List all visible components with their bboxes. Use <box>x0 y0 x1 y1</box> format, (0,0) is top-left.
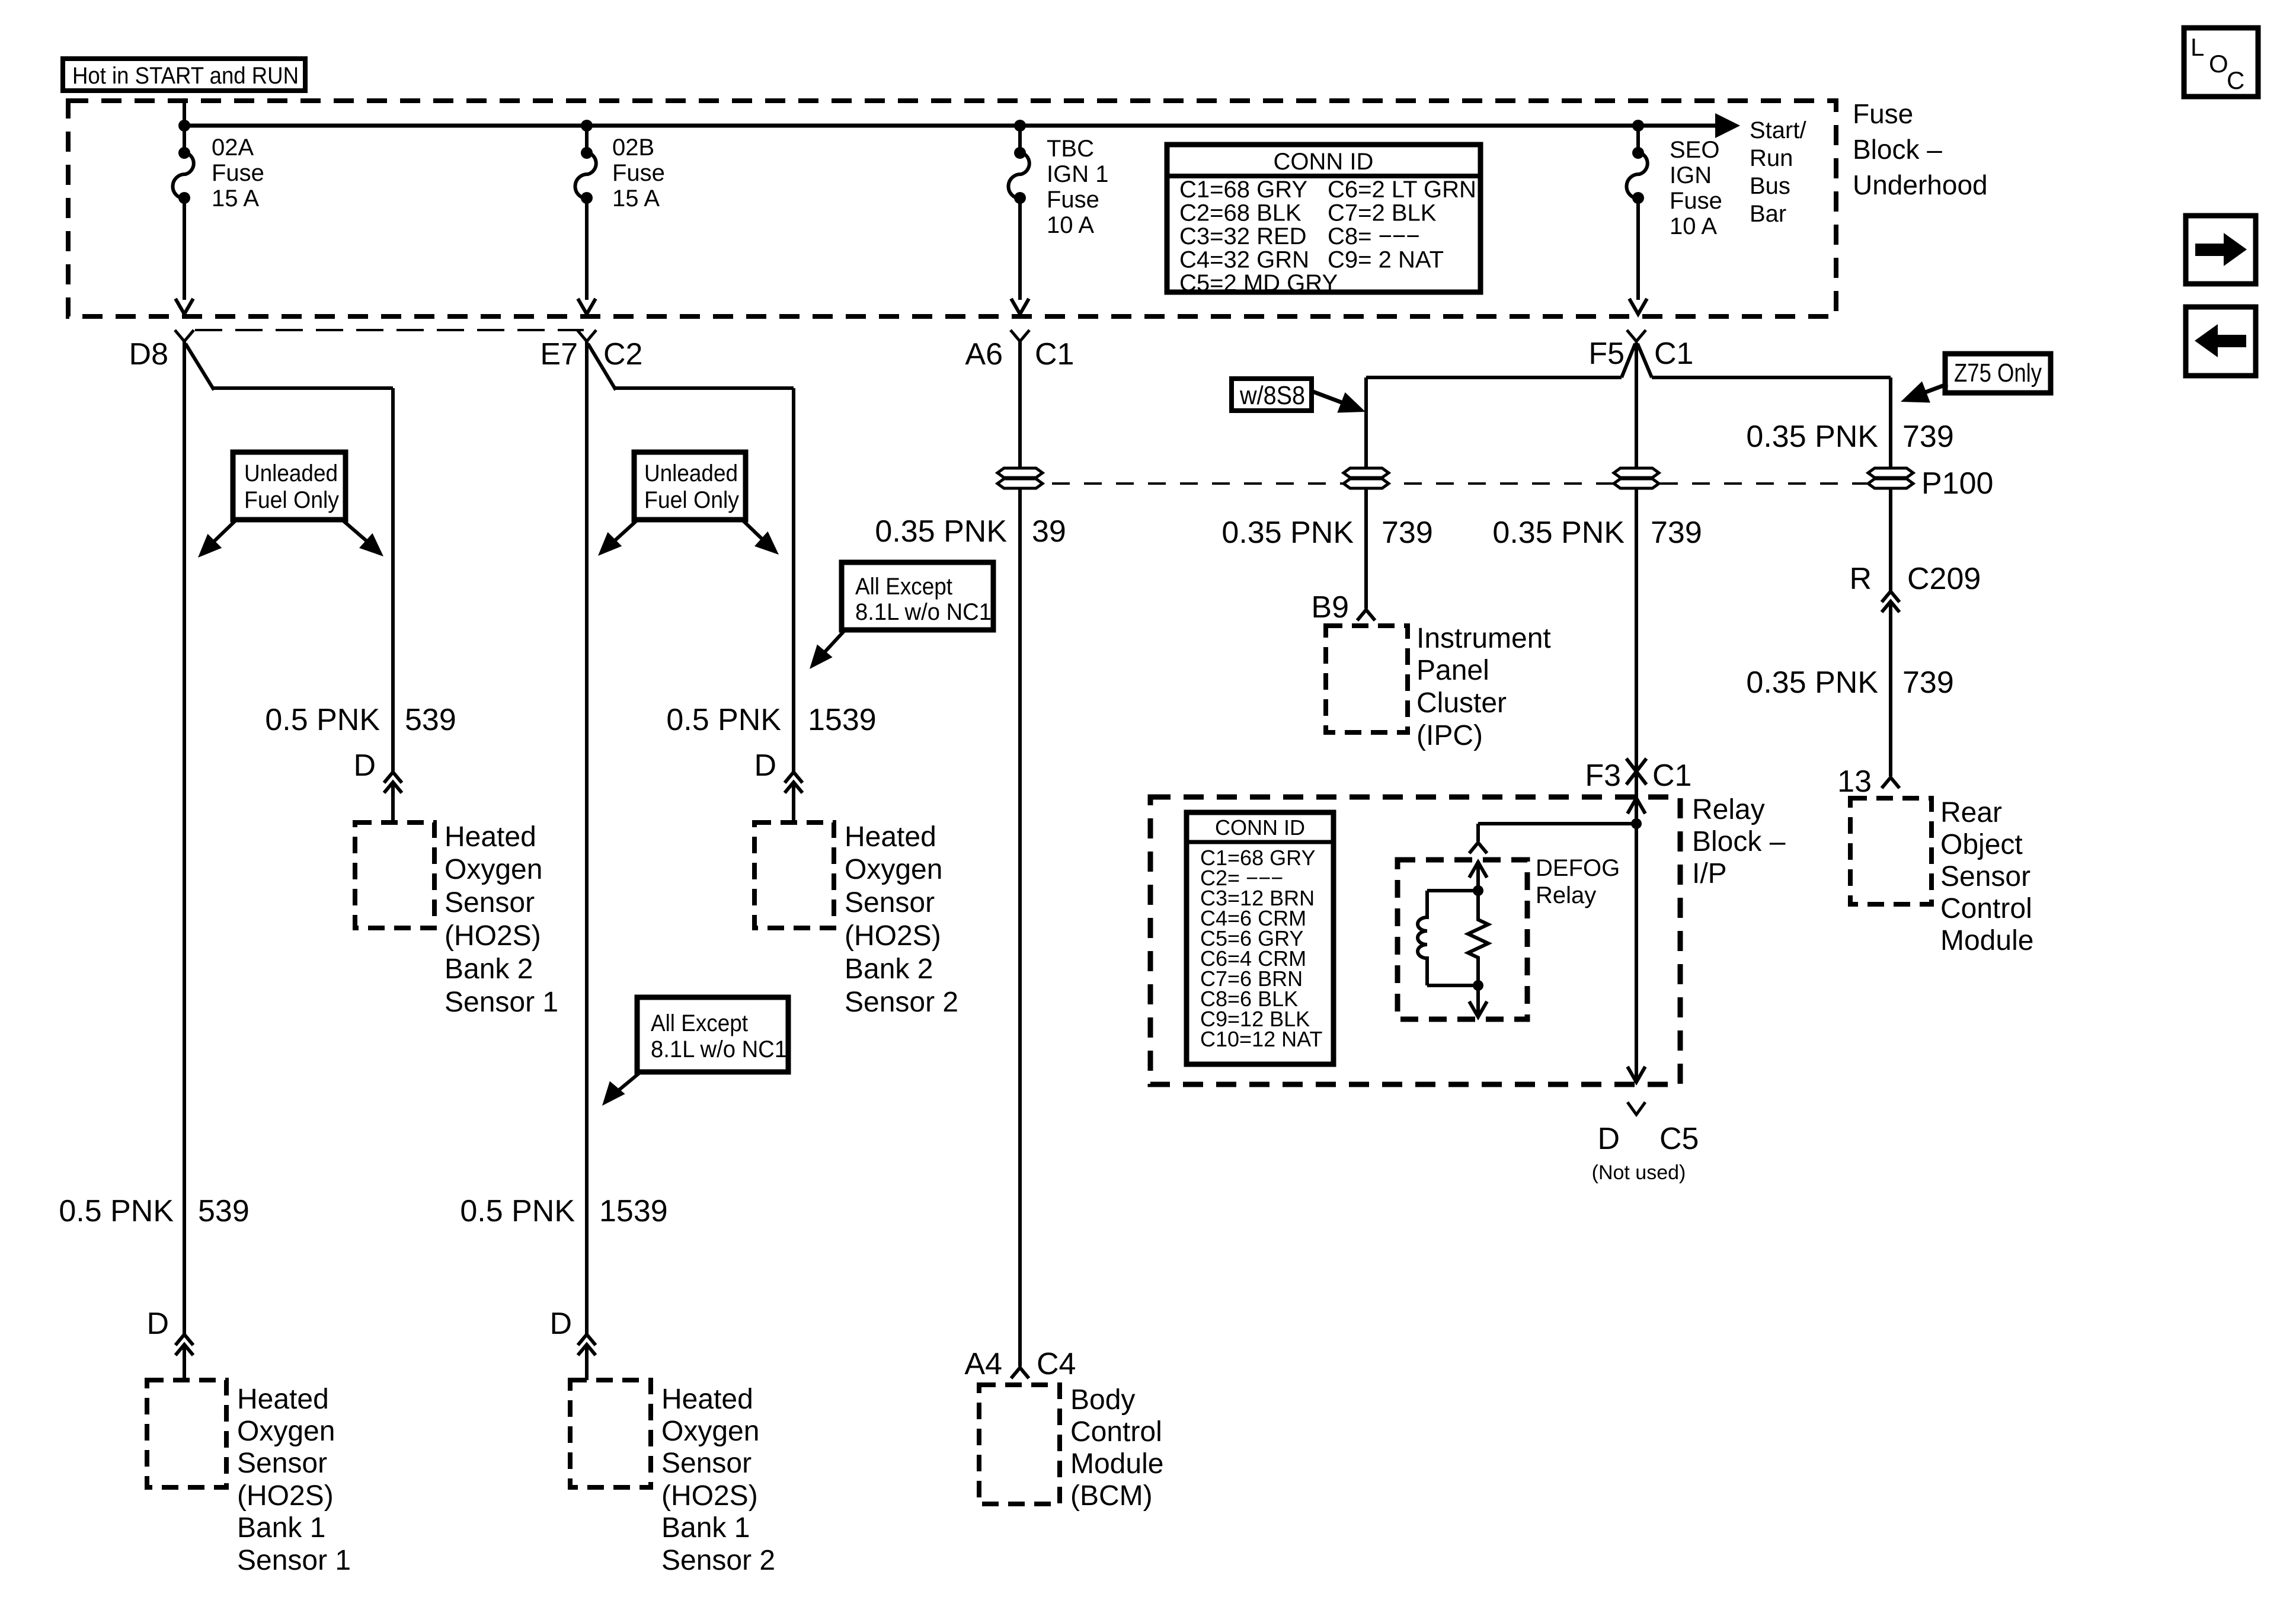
svg-text:D: D <box>353 748 376 783</box>
svg-text:C5: C5 <box>1659 1122 1699 1156</box>
svg-text:02B: 02B <box>612 135 654 161</box>
svg-text:8.1L w/o NC1: 8.1L w/o NC1 <box>651 1036 787 1062</box>
svg-text:Fuse: Fuse <box>1670 188 1722 214</box>
svg-text:Unleaded: Unleaded <box>244 460 338 486</box>
svg-text:C: C <box>2227 66 2244 94</box>
svg-text:Control: Control <box>1070 1416 1162 1448</box>
svg-text:Fuse: Fuse <box>612 160 665 186</box>
svg-text:R: R <box>1849 562 1872 596</box>
svg-text:0.35 PNK: 0.35 PNK <box>1746 665 1878 700</box>
svg-text:Bank 1: Bank 1 <box>237 1512 325 1544</box>
svg-text:Oxygen: Oxygen <box>237 1416 335 1447</box>
svg-text:Hot in START and RUN: Hot in START and RUN <box>72 63 299 89</box>
svg-text:TBC: TBC <box>1047 136 1094 162</box>
svg-text:0.35 PNK: 0.35 PNK <box>1492 516 1625 550</box>
svg-text:Heated: Heated <box>661 1384 753 1415</box>
svg-text:Bank 2: Bank 2 <box>445 953 533 985</box>
svg-text:Sensor: Sensor <box>1940 861 2030 892</box>
svg-text:Instrument: Instrument <box>1416 623 1551 654</box>
svg-text:15 A: 15 A <box>212 185 259 212</box>
svg-text:15 A: 15 A <box>612 185 660 212</box>
svg-text:0.35 PNK: 0.35 PNK <box>1746 420 1878 454</box>
svg-text:C1: C1 <box>1654 337 1693 371</box>
svg-text:Oxygen: Oxygen <box>445 854 542 885</box>
svg-text:Body: Body <box>1070 1384 1135 1416</box>
svg-text:P100: P100 <box>1921 466 1993 501</box>
svg-text:(Not used): (Not used) <box>1592 1161 1686 1184</box>
svg-text:Relay: Relay <box>1692 794 1765 825</box>
svg-text:39: 39 <box>1032 514 1066 549</box>
svg-text:D: D <box>549 1307 572 1341</box>
svg-text:A4: A4 <box>964 1347 1002 1381</box>
svg-text:0.5 PNK: 0.5 PNK <box>59 1194 174 1228</box>
svg-text:B9: B9 <box>1311 590 1349 625</box>
svg-text:F5: F5 <box>1588 337 1625 371</box>
svg-text:Bus: Bus <box>1750 173 1790 199</box>
svg-text:w/8S8: w/8S8 <box>1239 381 1305 410</box>
svg-text:1539: 1539 <box>808 703 877 737</box>
svg-text:Module: Module <box>1940 925 2033 956</box>
svg-text:8.1L w/o NC1: 8.1L w/o NC1 <box>855 599 992 625</box>
svg-text:DEFOG: DEFOG <box>1536 855 1620 881</box>
svg-text:0.5 PNK: 0.5 PNK <box>666 703 781 737</box>
svg-text:739: 739 <box>1651 516 1702 550</box>
svg-text:Module: Module <box>1070 1448 1163 1480</box>
svg-text:C1: C1 <box>1652 758 1691 793</box>
svg-text:Sensor 2: Sensor 2 <box>661 1545 775 1576</box>
svg-text:Sensor: Sensor <box>237 1448 327 1479</box>
svg-text:CONN ID: CONN ID <box>1274 149 1374 175</box>
svg-text:Sensor 1: Sensor 1 <box>445 987 558 1018</box>
svg-text:Z75 Only: Z75 Only <box>1954 359 2042 388</box>
svg-text:C4=32 GRN: C4=32 GRN <box>1179 247 1309 273</box>
svg-text:C2=68 BLK: C2=68 BLK <box>1179 200 1302 226</box>
svg-text:Oxygen: Oxygen <box>845 854 942 885</box>
svg-text:Heated: Heated <box>445 821 536 853</box>
svg-text:C1: C1 <box>1035 337 1074 372</box>
svg-text:Block –: Block – <box>1692 826 1786 857</box>
svg-text:C10=12 NAT: C10=12 NAT <box>1200 1027 1322 1051</box>
svg-text:0.5 PNK: 0.5 PNK <box>265 703 380 737</box>
svg-text:Bank 2: Bank 2 <box>845 953 933 985</box>
svg-text:C4: C4 <box>1037 1347 1076 1381</box>
svg-text:Underhood: Underhood <box>1853 169 1988 200</box>
svg-text:Oxygen: Oxygen <box>661 1416 759 1447</box>
svg-text:F3: F3 <box>1585 758 1621 793</box>
svg-text:(HO2S): (HO2S) <box>845 920 941 952</box>
svg-text:Sensor 2: Sensor 2 <box>845 987 958 1018</box>
svg-text:Unleaded: Unleaded <box>644 460 738 486</box>
svg-text:02A: 02A <box>212 135 254 161</box>
svg-text:Fuse: Fuse <box>212 160 264 186</box>
svg-text:Fuel Only: Fuel Only <box>244 487 339 513</box>
svg-text:Fuse: Fuse <box>1853 98 1913 129</box>
svg-text:10 A: 10 A <box>1670 213 1717 239</box>
svg-text:Control: Control <box>1940 893 2032 924</box>
svg-text:C2: C2 <box>603 337 642 372</box>
svg-text:1539: 1539 <box>599 1194 668 1228</box>
svg-text:739: 739 <box>1902 665 1954 700</box>
svg-text:Rear: Rear <box>1940 797 2002 828</box>
svg-text:C7=2 BLK: C7=2 BLK <box>1328 200 1437 226</box>
svg-text:739: 739 <box>1902 420 1954 454</box>
svg-text:Sensor 1: Sensor 1 <box>237 1545 351 1576</box>
svg-text:739: 739 <box>1382 516 1433 550</box>
svg-text:Fuel Only: Fuel Only <box>644 487 739 513</box>
svg-text:All Except: All Except <box>651 1010 748 1036</box>
svg-text:CONN ID: CONN ID <box>1215 815 1305 840</box>
svg-text:O: O <box>2209 50 2228 78</box>
svg-text:Block –: Block – <box>1853 134 1942 165</box>
svg-text:D8: D8 <box>129 337 168 372</box>
svg-text:E7: E7 <box>540 337 578 372</box>
svg-text:Start/: Start/ <box>1750 117 1806 143</box>
svg-text:539: 539 <box>405 703 456 737</box>
svg-text:Bar: Bar <box>1750 201 1786 227</box>
svg-text:Relay: Relay <box>1536 882 1596 908</box>
svg-text:Heated: Heated <box>845 821 936 853</box>
svg-text:IGN: IGN <box>1670 162 1712 188</box>
svg-text:Run: Run <box>1750 145 1793 171</box>
svg-text:13: 13 <box>1837 764 1872 799</box>
svg-text:C209: C209 <box>1907 562 1981 596</box>
svg-text:(IPC): (IPC) <box>1416 720 1483 751</box>
svg-text:Sensor: Sensor <box>845 887 935 918</box>
svg-text:C5=2 MD GRY: C5=2 MD GRY <box>1179 270 1338 296</box>
svg-text:(HO2S): (HO2S) <box>661 1480 758 1512</box>
svg-text:Panel: Panel <box>1416 655 1489 686</box>
svg-text:C8= −−−: C8= −−− <box>1328 223 1420 249</box>
svg-text:0.35 PNK: 0.35 PNK <box>1221 516 1354 550</box>
svg-text:Sensor: Sensor <box>661 1448 752 1479</box>
svg-text:A6: A6 <box>965 337 1003 372</box>
svg-text:I/P: I/P <box>1692 858 1727 889</box>
svg-text:D: D <box>146 1307 169 1341</box>
svg-text:C9= 2 NAT: C9= 2 NAT <box>1328 247 1444 273</box>
svg-text:(HO2S): (HO2S) <box>237 1480 334 1512</box>
svg-text:0.5 PNK: 0.5 PNK <box>460 1194 575 1228</box>
svg-text:IGN 1: IGN 1 <box>1047 161 1108 187</box>
svg-text:SEO: SEO <box>1670 137 1719 163</box>
svg-text:0.35 PNK: 0.35 PNK <box>875 514 1007 549</box>
svg-text:Fuse: Fuse <box>1047 187 1099 213</box>
svg-text:D: D <box>754 748 776 783</box>
svg-text:(BCM): (BCM) <box>1070 1480 1153 1512</box>
svg-text:Object: Object <box>1940 829 2023 860</box>
svg-text:C6=2 LT GRN: C6=2 LT GRN <box>1328 177 1476 203</box>
svg-text:Bank 1: Bank 1 <box>661 1512 750 1544</box>
svg-text:Sensor: Sensor <box>445 887 535 918</box>
svg-text:L: L <box>2191 33 2204 61</box>
svg-text:Heated: Heated <box>237 1384 329 1415</box>
svg-text:539: 539 <box>198 1194 250 1228</box>
svg-text:C3=32 RED: C3=32 RED <box>1179 223 1307 249</box>
svg-text:(HO2S): (HO2S) <box>445 920 541 952</box>
svg-text:10 A: 10 A <box>1047 212 1094 238</box>
svg-text:All Except: All Except <box>855 574 952 600</box>
svg-text:D: D <box>1597 1122 1620 1156</box>
svg-text:Cluster: Cluster <box>1416 687 1507 719</box>
svg-text:C1=68 GRY: C1=68 GRY <box>1179 177 1307 203</box>
